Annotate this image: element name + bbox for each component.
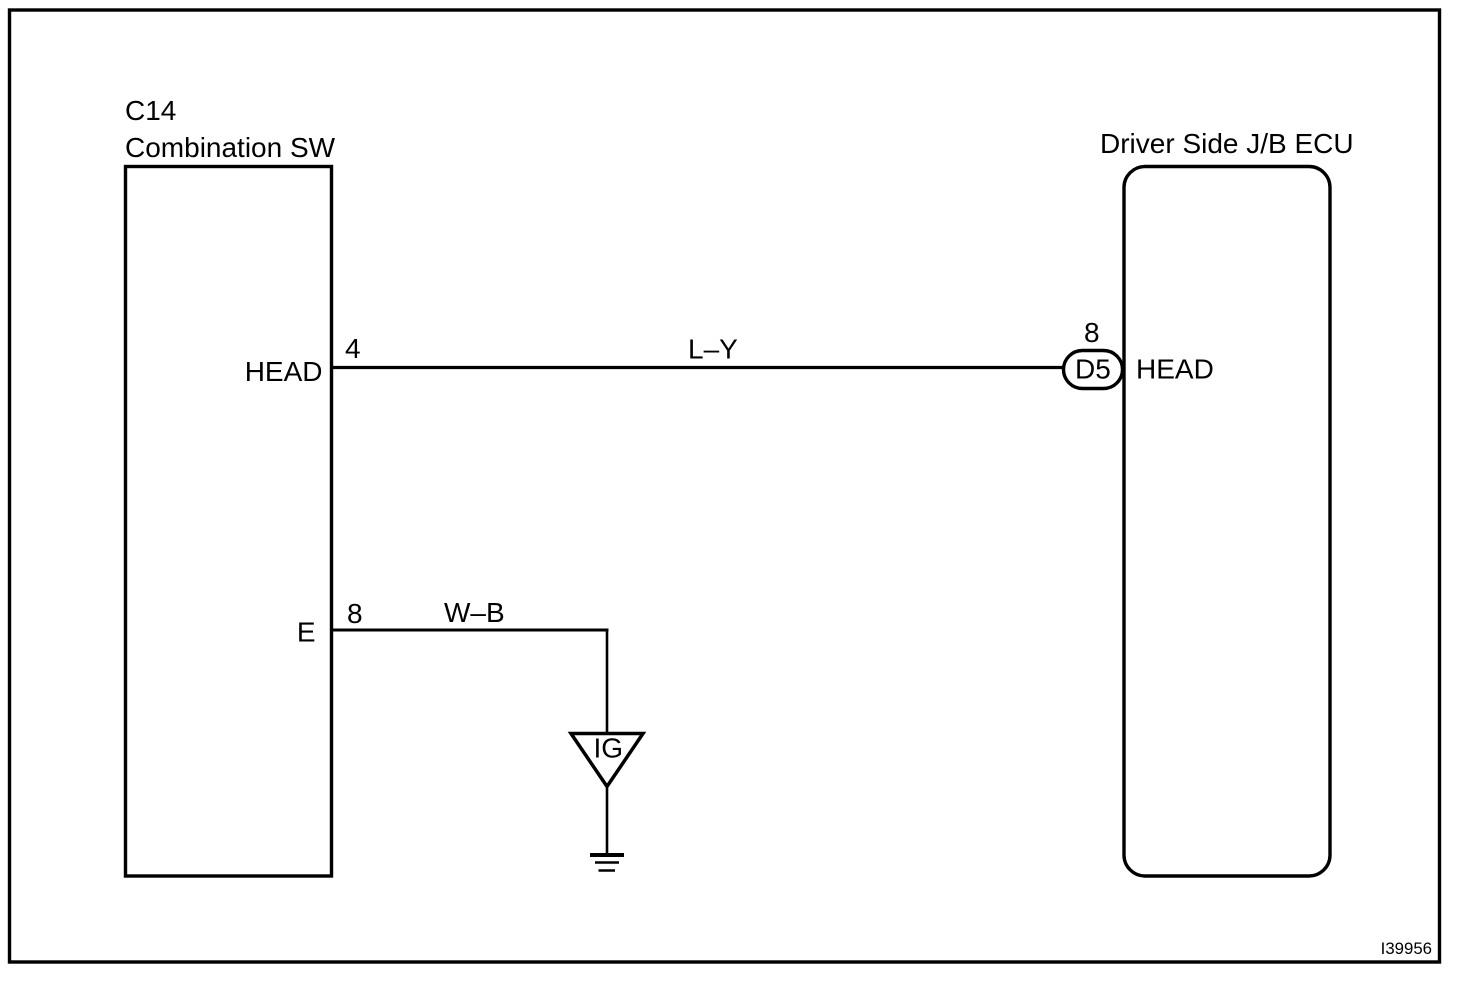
driver side J/B ECU block [1124, 167, 1330, 877]
svg-text:HEAD: HEAD [1136, 354, 1214, 385]
wire IG to ground [606, 788, 609, 854]
svg-text:D5: D5 [1075, 354, 1111, 385]
svg-text:L–Y: L–Y [688, 334, 738, 365]
ground bar 3 [599, 869, 616, 872]
wire E to IG: vertical segment [606, 630, 609, 733]
IG power symbol triangle [571, 734, 643, 787]
svg-text:C14: C14 [125, 95, 176, 126]
svg-text:Combination SW: Combination SW [125, 132, 336, 163]
svg-text:E: E [297, 617, 316, 648]
connector D5 oval [1064, 351, 1123, 389]
svg-text:W–B: W–B [444, 597, 505, 628]
svg-text:4: 4 [345, 333, 361, 364]
svg-text:IG: IG [594, 733, 624, 764]
ground bar 2 [595, 861, 619, 864]
svg-text:I39956: I39956 [1381, 939, 1432, 958]
ground bar 1 [590, 853, 624, 857]
svg-text:8: 8 [1084, 317, 1100, 348]
wire E to IG: horizontal segment [333, 629, 609, 632]
svg-text:Driver Side J/B ECU: Driver Side J/B ECU [1100, 128, 1354, 159]
svg-text:8: 8 [347, 598, 363, 629]
wire HEAD: C14 pin 4 to J/B ECU D5 pin 8 [333, 366, 1066, 369]
svg-text:HEAD: HEAD [245, 356, 323, 387]
combination switch block C14 [126, 167, 332, 877]
